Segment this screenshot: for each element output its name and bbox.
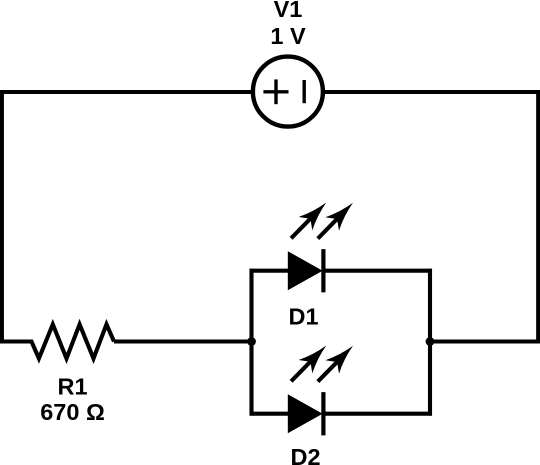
wire right vertical (536, 90, 540, 343)
wire from resistor to node A (114, 339, 252, 343)
wire D1 branch right (323, 269, 432, 273)
svg-text:R1: R1 (57, 374, 87, 400)
wire D2 branch right (323, 412, 432, 416)
LED D2 light arrow 2 (318, 346, 353, 382)
wire top-right: voltage source to right edge (325, 90, 540, 94)
wire left vertical (0, 90, 4, 343)
wire D2 branch left (250, 412, 290, 416)
LED D2 anode triangle (288, 394, 323, 433)
svg-text:1 V: 1 V (270, 23, 306, 49)
junction node A (247, 337, 256, 346)
LED D2 cathode bar (321, 392, 325, 435)
wire from node B to right edge (430, 339, 540, 343)
LED D1 light arrow 2 (318, 203, 353, 239)
junction node B (426, 337, 435, 346)
svg-text:D2: D2 (290, 444, 320, 465)
svg-text:D1: D1 (288, 304, 318, 330)
wire parallel box left vertical (249, 269, 253, 416)
voltage source V1 (253, 57, 323, 127)
wire parallel box right vertical (428, 269, 432, 416)
wire D1 branch left (250, 269, 290, 273)
resistor R1 (0, 324, 114, 358)
svg-text:V1: V1 (274, 0, 303, 22)
svg-text:670 Ω: 670 Ω (40, 399, 105, 425)
LED D1 anode triangle (288, 251, 323, 290)
LED D1 cathode bar (321, 249, 325, 292)
wire top-left: left edge to voltage source (0, 90, 252, 94)
LED D2 light arrow 1 (291, 346, 326, 382)
LED D1 light arrow 1 (291, 203, 326, 239)
